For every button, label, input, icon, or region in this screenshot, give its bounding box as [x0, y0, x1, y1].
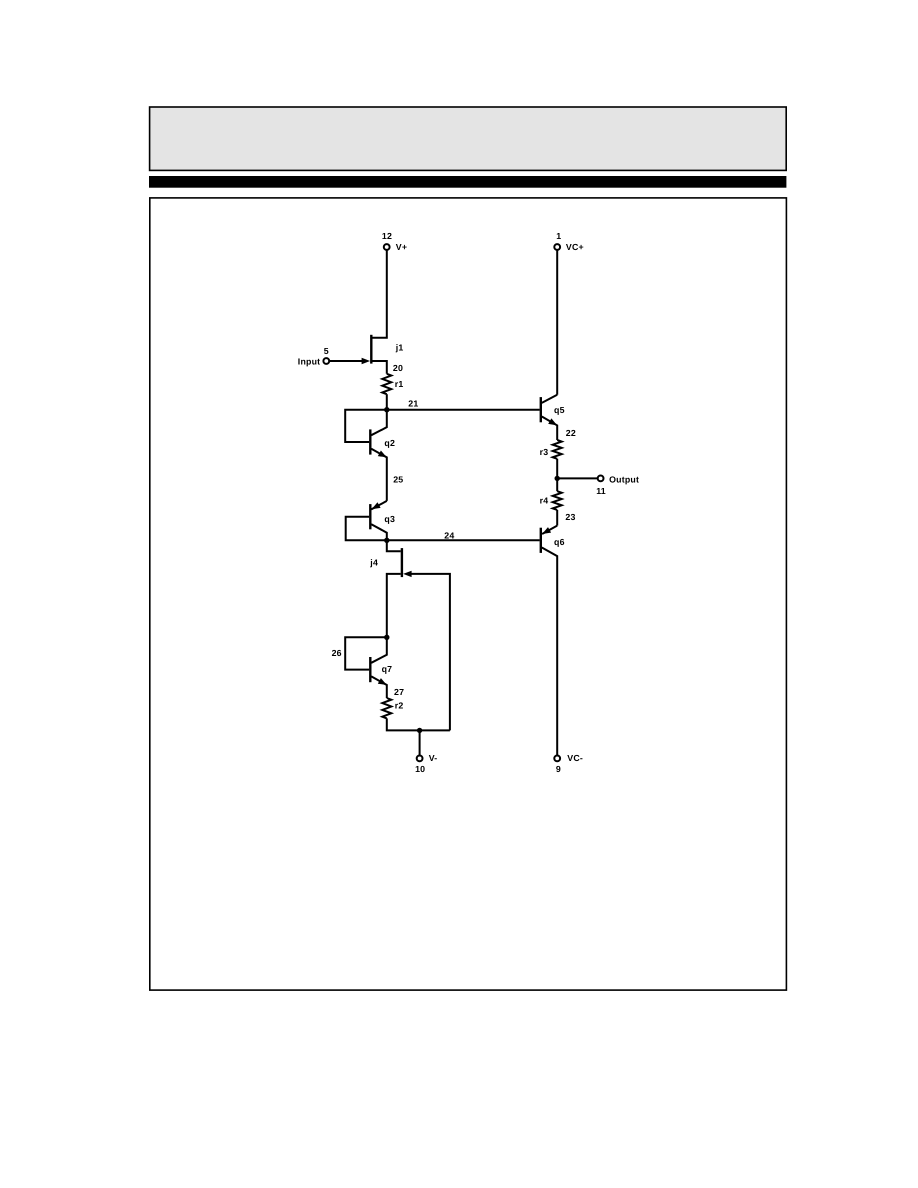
node at V- junction — [417, 728, 422, 733]
svg-text:q3: q3 — [384, 514, 395, 524]
svg-text:11: 11 — [596, 486, 606, 496]
wire to Output terminal — [557, 477, 597, 479]
wire node 21 to q5 base — [387, 409, 540, 411]
transistor q7 — [369, 657, 371, 682]
wire r1 to node 21 — [386, 394, 388, 410]
wire to V- terminal — [419, 730, 421, 755]
svg-text:r1: r1 — [395, 379, 404, 389]
svg-text:23: 23 — [565, 512, 575, 522]
svg-text:j1: j1 — [395, 342, 404, 352]
jfet J1 — [370, 335, 372, 364]
transistor q5 — [540, 397, 542, 422]
svg-text:q6: q6 — [554, 537, 565, 547]
svg-text:r2: r2 — [395, 701, 404, 711]
jfet J4 — [387, 540, 401, 551]
schematic frame — [150, 198, 787, 990]
q2 base loop wire — [345, 410, 387, 442]
svg-text:q2: q2 — [384, 438, 395, 448]
svg-text:5: 5 — [324, 346, 329, 356]
svg-text:r3: r3 — [540, 447, 549, 457]
wire r4 to q6 emitter — [556, 510, 558, 526]
svg-text:9: 9 — [556, 764, 561, 774]
node 24 — [384, 538, 389, 543]
terminal V- pin 10 — [417, 756, 423, 762]
resistor r4 — [556, 478, 558, 491]
svg-text:q5: q5 — [554, 405, 565, 415]
svg-text:26: 26 — [332, 648, 342, 658]
j4 gate loop wire — [409, 574, 450, 731]
svg-text:VC-: VC- — [567, 753, 583, 763]
resistor r1 — [382, 374, 391, 394]
node 21 — [384, 407, 389, 412]
resistor r3 — [553, 440, 562, 459]
terminal VC- pin 9 — [554, 756, 560, 762]
svg-text:24: 24 — [444, 530, 454, 540]
wire V+ to j1 drain — [372, 250, 387, 338]
terminal Output pin 11 — [598, 476, 604, 482]
svg-text:j4: j4 — [369, 557, 378, 567]
node 26 — [384, 635, 389, 640]
svg-text:27: 27 — [394, 687, 404, 697]
transistor q3 — [369, 504, 371, 529]
svg-text:V-: V- — [429, 753, 438, 763]
svg-text:1: 1 — [556, 231, 561, 241]
header box — [150, 107, 787, 170]
wire input gate — [329, 360, 363, 362]
svg-text:10: 10 — [415, 764, 425, 774]
svg-text:Input: Input — [298, 357, 321, 367]
wire r2 to V- rail — [387, 718, 450, 730]
svg-text:V+: V+ — [396, 242, 407, 252]
output node dot — [555, 476, 560, 481]
resistor r2 — [382, 698, 391, 718]
wire node 24 to q6 base — [387, 539, 540, 541]
svg-text:20: 20 — [393, 363, 403, 373]
title bar — [149, 176, 786, 188]
svg-text:r4: r4 — [540, 496, 549, 506]
svg-text:q7: q7 — [382, 664, 393, 674]
svg-text:25: 25 — [393, 475, 403, 485]
wire r3 to output node — [556, 459, 558, 479]
svg-text:21: 21 — [408, 398, 418, 408]
q7 base loop wire — [345, 637, 387, 669]
svg-text:VC+: VC+ — [566, 242, 584, 252]
q3 base loop wire — [346, 517, 387, 541]
svg-text:12: 12 — [382, 231, 392, 241]
transistor q2 — [369, 429, 371, 454]
transistor q6 — [540, 528, 542, 553]
wire VC+ to q5 collector — [556, 250, 558, 395]
svg-text:22: 22 — [566, 428, 576, 438]
svg-text:Output: Output — [609, 474, 639, 484]
